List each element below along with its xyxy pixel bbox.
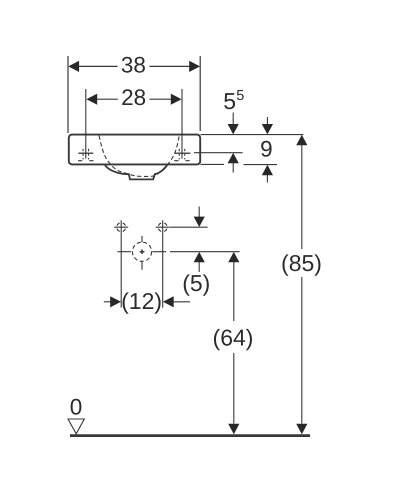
drain hole centerlines [118,236,167,270]
dimension 5.5 down arrow [228,113,239,135]
left tap hole cross [78,89,93,159]
basin bottom edge extension line [201,163,225,165]
datum zero label [70,394,83,419]
dimension 38 line and arrows [68,61,200,72]
fixing holes extension lines down [121,234,163,307]
dimension 5 up arrow [194,252,205,272]
svg-text:(85): (85) [281,250,322,276]
label 5.5 (5 superscript 5) [223,88,244,114]
svg-text:(5): (5) [182,270,210,296]
dimension (5) label [182,270,210,296]
washbasin bowl hidden outline (dashed) [99,136,179,177]
drain hole circle (dashed) [132,242,151,261]
svg-text:28: 28 [121,85,146,110]
svg-text:0: 0 [70,394,83,419]
dimension (85) label [281,250,322,276]
dimension (85) vertical line [296,135,307,434]
dimension 38 extension lines [68,56,200,133]
svg-text:(64): (64) [213,325,254,351]
dimension 38 label [121,52,146,77]
right fixing hole crosshair [156,220,170,234]
dimension (12) line and arrows [104,296,190,307]
svg-text:9: 9 [260,136,273,161]
dimension 9 down arrow [262,117,273,134]
dimension (64) label [213,325,254,351]
dimension 5.5 up arrow [228,153,239,173]
dimension 28 label [121,85,146,110]
left fixing hole crosshair [114,220,128,234]
dimension 28 line and arrows [86,94,181,105]
left tap hole boss (dashed) [78,149,94,161]
washbasin outer rim (front view) [69,135,200,165]
right tap hole boss (dashed) [174,149,190,161]
dimension 9 up arrow [262,165,273,183]
floor line [70,434,310,437]
datum triangle symbol [68,419,84,434]
washbasin bowl front edge with drain tab [105,165,168,180]
dimension 9 bottom extension line [244,164,278,166]
dimension (64) vertical line [228,252,239,434]
dimension (12) label [121,288,162,314]
right tap hole cross [175,89,191,159]
svg-text:5: 5 [236,88,244,104]
fixing hole level line [170,226,208,228]
basin top edge extension line to right [201,134,304,136]
dimension 5 down arrow [194,207,205,228]
svg-text:38: 38 [121,52,146,77]
svg-text:(12): (12) [121,288,162,314]
svg-text:5: 5 [223,88,236,114]
tap hole leader line to right [194,152,243,154]
drain level line [170,251,240,253]
dimension 9 label [260,136,273,161]
